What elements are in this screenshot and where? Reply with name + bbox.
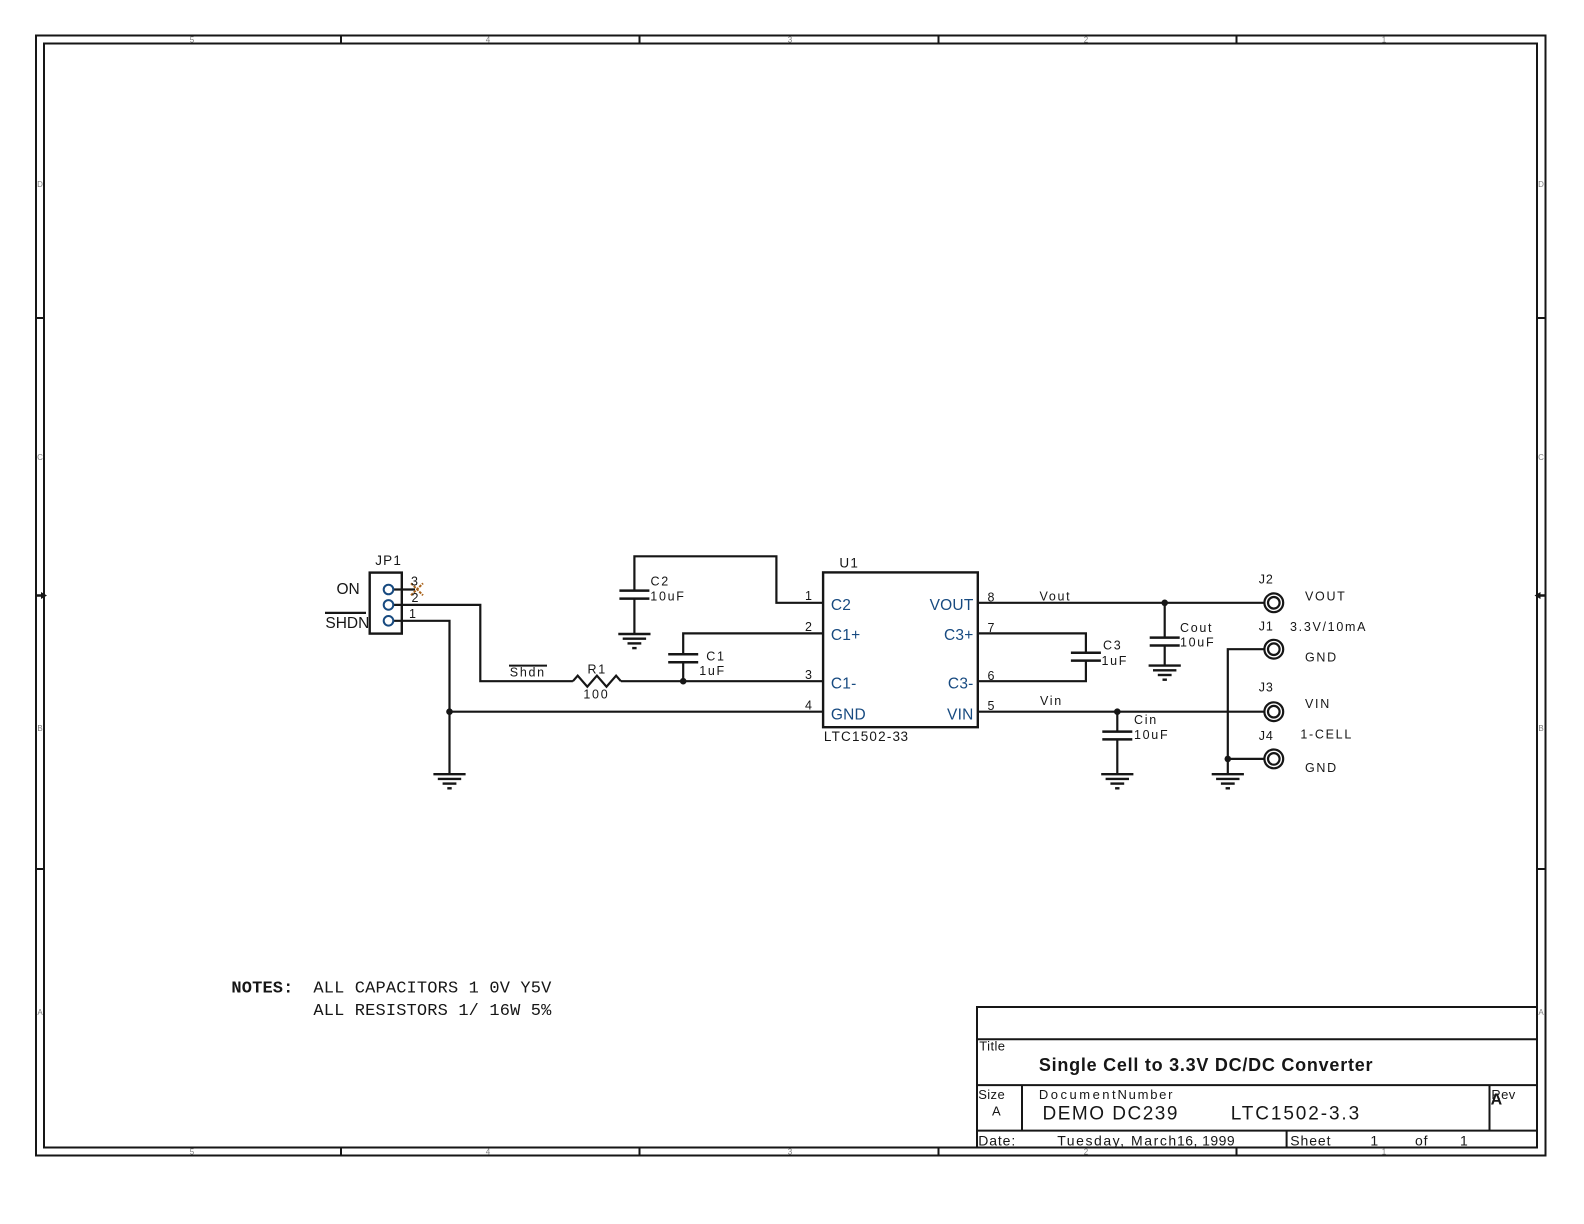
svg-text:5: 5 bbox=[190, 36, 195, 45]
svg-text:Title: Title bbox=[979, 1039, 1005, 1054]
svg-text:GND: GND bbox=[1305, 761, 1338, 775]
svg-text:6: 6 bbox=[988, 669, 995, 683]
svg-text:4: 4 bbox=[486, 36, 491, 45]
svg-text:D: D bbox=[37, 180, 43, 189]
svg-text:1: 1 bbox=[1370, 1133, 1379, 1149]
svg-text:Vin: Vin bbox=[1040, 694, 1063, 708]
svg-text:C: C bbox=[1538, 453, 1544, 462]
svg-text:Vout: Vout bbox=[1040, 590, 1072, 604]
svg-text:2: 2 bbox=[805, 620, 812, 634]
svg-text:3: 3 bbox=[788, 1148, 793, 1157]
svg-text:A: A bbox=[1491, 1092, 1503, 1109]
svg-text:R1: R1 bbox=[588, 663, 607, 677]
svg-text:1: 1 bbox=[1460, 1133, 1469, 1149]
svg-text:A: A bbox=[37, 1008, 43, 1017]
svg-text:VIN: VIN bbox=[947, 706, 973, 723]
svg-text:NOTES:: NOTES: bbox=[231, 979, 293, 998]
svg-text:1uF: 1uF bbox=[699, 664, 726, 678]
svg-text:5: 5 bbox=[988, 699, 995, 713]
svg-text:ALL CAPACITORS 1 0V Y5V: ALL CAPACITORS 1 0V Y5V bbox=[313, 979, 552, 998]
svg-text:of: of bbox=[1415, 1133, 1428, 1149]
svg-text:Cout: Cout bbox=[1180, 621, 1213, 635]
svg-text:U1: U1 bbox=[839, 556, 859, 571]
svg-text:Single Cell to 3.3V DC/DC Conv: Single Cell to 3.3V DC/DC Converter bbox=[1039, 1055, 1373, 1075]
svg-text:1: 1 bbox=[1382, 36, 1387, 45]
svg-text:Date:: Date: bbox=[978, 1133, 1016, 1149]
svg-text:Sheet: Sheet bbox=[1290, 1133, 1331, 1149]
svg-text:B: B bbox=[37, 724, 42, 733]
svg-text:2: 2 bbox=[1084, 1148, 1089, 1157]
svg-text:7: 7 bbox=[988, 621, 995, 635]
svg-text:10uF: 10uF bbox=[1180, 636, 1215, 650]
svg-text:GND: GND bbox=[831, 706, 866, 723]
svg-text:D: D bbox=[1538, 180, 1544, 189]
svg-text:3: 3 bbox=[901, 729, 910, 744]
svg-text:Cin: Cin bbox=[1134, 713, 1158, 727]
svg-text:C2: C2 bbox=[831, 597, 851, 614]
svg-text:C1: C1 bbox=[706, 650, 725, 664]
svg-text:C2: C2 bbox=[651, 575, 670, 589]
svg-text:3: 3 bbox=[788, 36, 793, 45]
svg-text:VIN: VIN bbox=[1305, 697, 1331, 711]
svg-text:VOUT: VOUT bbox=[1305, 590, 1347, 604]
svg-text:J1: J1 bbox=[1259, 619, 1274, 633]
svg-text:1: 1 bbox=[1382, 1148, 1387, 1157]
svg-text:SHDN: SHDN bbox=[325, 615, 369, 632]
svg-text:J3: J3 bbox=[1259, 681, 1274, 695]
svg-text:10uF: 10uF bbox=[650, 590, 685, 604]
svg-text:C3+: C3+ bbox=[944, 627, 973, 644]
svg-text:2: 2 bbox=[412, 591, 419, 605]
svg-text:2: 2 bbox=[1084, 36, 1089, 45]
svg-text:A: A bbox=[992, 1104, 1001, 1119]
svg-text:16, 1999: 16, 1999 bbox=[1177, 1133, 1235, 1149]
svg-text:J2: J2 bbox=[1259, 573, 1274, 587]
svg-text:3: 3 bbox=[805, 668, 812, 682]
svg-text:Tuesday, March: Tuesday, March bbox=[1057, 1133, 1178, 1149]
svg-text:A: A bbox=[1538, 1008, 1544, 1017]
svg-text:100: 100 bbox=[583, 688, 609, 702]
svg-text:B: B bbox=[1538, 724, 1543, 733]
svg-text:1: 1 bbox=[409, 607, 416, 621]
svg-text:Document: Document bbox=[1039, 1087, 1118, 1102]
svg-text:C1+: C1+ bbox=[831, 627, 860, 644]
svg-text:C1-: C1- bbox=[831, 675, 857, 692]
svg-text:1: 1 bbox=[805, 589, 812, 603]
svg-text:10uF: 10uF bbox=[1134, 728, 1169, 742]
svg-text:1uF: 1uF bbox=[1102, 654, 1129, 668]
svg-text:5: 5 bbox=[190, 1148, 195, 1157]
svg-text:C3-: C3- bbox=[948, 675, 974, 692]
svg-text:ON: ON bbox=[337, 581, 360, 598]
svg-text:3: 3 bbox=[411, 574, 418, 588]
svg-text:LTC1502-3.3: LTC1502-3.3 bbox=[1231, 1103, 1361, 1124]
svg-text:GND: GND bbox=[1305, 651, 1338, 665]
svg-text:LTC1502-3: LTC1502-3 bbox=[824, 729, 901, 744]
svg-text:4: 4 bbox=[486, 1148, 491, 1157]
svg-text:J4: J4 bbox=[1259, 729, 1274, 743]
svg-text:4: 4 bbox=[805, 698, 812, 712]
svg-text:Number: Number bbox=[1118, 1087, 1175, 1102]
svg-text:C3: C3 bbox=[1103, 638, 1122, 652]
svg-text:ALL RESISTORS 1/ 16W 5%: ALL RESISTORS 1/ 16W 5% bbox=[313, 1002, 552, 1021]
svg-text:8: 8 bbox=[988, 590, 995, 604]
svg-text:1-CELL: 1-CELL bbox=[1300, 728, 1353, 742]
svg-text:DEMO DC239: DEMO DC239 bbox=[1043, 1103, 1179, 1124]
svg-text:JP1: JP1 bbox=[375, 553, 402, 568]
svg-text:3.3V/10mA: 3.3V/10mA bbox=[1290, 620, 1367, 634]
svg-text:Size: Size bbox=[978, 1087, 1005, 1102]
svg-text:Shdn: Shdn bbox=[510, 666, 546, 680]
svg-text:VOUT: VOUT bbox=[930, 597, 974, 614]
svg-text:C: C bbox=[37, 453, 43, 462]
